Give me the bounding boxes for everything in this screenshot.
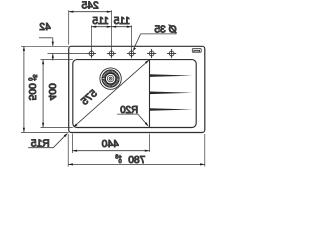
svg-text:R15: R15 xyxy=(30,139,49,150)
extension line: bowl left edge down (for 440) xyxy=(71,134,73,153)
sink outer outline xyxy=(69,46,205,132)
extension line: bowl bottom edge right (for 400) xyxy=(41,127,73,129)
drain outer circle xyxy=(100,68,121,89)
extension line: hole1 up (for 115) xyxy=(91,25,93,49)
svg-text:115: 115 xyxy=(92,16,109,27)
extension line: bowl divider down (for 440) xyxy=(149,134,151,152)
extension line: tap hole centerline (for 42) xyxy=(48,53,88,55)
bowl/drainboard divider wall xyxy=(149,60,151,128)
svg-text:42: 42 xyxy=(39,22,51,33)
drain inner circles xyxy=(106,74,116,84)
svg-text:0: 0 xyxy=(27,78,33,81)
svg-text:Ø 35: Ø 35 xyxy=(154,24,177,35)
svg-text:245: 245 xyxy=(81,1,98,12)
dimension 400 text (rotated) xyxy=(46,83,57,100)
extension line: sink right edge down (for 780) xyxy=(67,134,69,167)
svg-text:780: 780 xyxy=(128,155,145,166)
dimension 575 text (rotated along diagonal) xyxy=(79,88,99,108)
label Ø35 leader xyxy=(141,33,177,35)
dimension 245 line xyxy=(69,11,112,13)
diagonal dimension 575 line xyxy=(74,60,149,127)
dimension 115/115 line xyxy=(92,26,132,28)
extension line: bowl top edge right (for 400) xyxy=(41,59,73,61)
drainer groove 2 xyxy=(150,92,193,95)
extension line: sink left edge up (for 245) xyxy=(68,10,70,44)
tap hole 1 xyxy=(87,49,96,58)
dimension 42 leader and arrows (top right) xyxy=(39,37,53,39)
dimension 780 line xyxy=(68,163,205,165)
dimension 400 line xyxy=(42,60,44,128)
extension line: sink top edge right (for 42/500) xyxy=(21,45,69,47)
drain strainer textured ring xyxy=(104,72,118,86)
extension line: sink left edge down (for 780) xyxy=(204,134,206,167)
entire drawing is horizontally mirrored xyxy=(21,1,205,167)
drainer groove 1 xyxy=(150,74,193,77)
extension line: hole3 up (for 115) xyxy=(131,25,133,49)
inner rim (bowl + drainboard) xyxy=(73,60,196,128)
extension line: sink bottom edge right (for 500) xyxy=(21,132,69,134)
dimension 440 line xyxy=(72,150,149,152)
svg-text:400: 400 xyxy=(46,83,57,100)
drainer groove 3 xyxy=(150,108,193,111)
extension line: hole2 up (for 245/115) xyxy=(111,10,113,49)
tap hole 2 xyxy=(107,49,116,58)
label R15 leader xyxy=(28,147,53,149)
overflow slot knockout xyxy=(192,49,201,53)
tap hole 3 xyxy=(127,49,136,58)
dimension 500 line xyxy=(23,46,25,132)
tap hole 5 xyxy=(167,49,176,58)
tap hole 4 xyxy=(147,49,156,58)
label R20 leader xyxy=(117,113,138,115)
svg-text:115: 115 xyxy=(113,16,130,27)
svg-text:0: 0 xyxy=(119,159,122,165)
svg-text:440: 440 xyxy=(101,139,118,150)
svg-text:R20: R20 xyxy=(120,105,139,116)
svg-text:500: 500 xyxy=(26,83,37,100)
dimension 500 +5/0 text (rotated) xyxy=(26,75,37,101)
